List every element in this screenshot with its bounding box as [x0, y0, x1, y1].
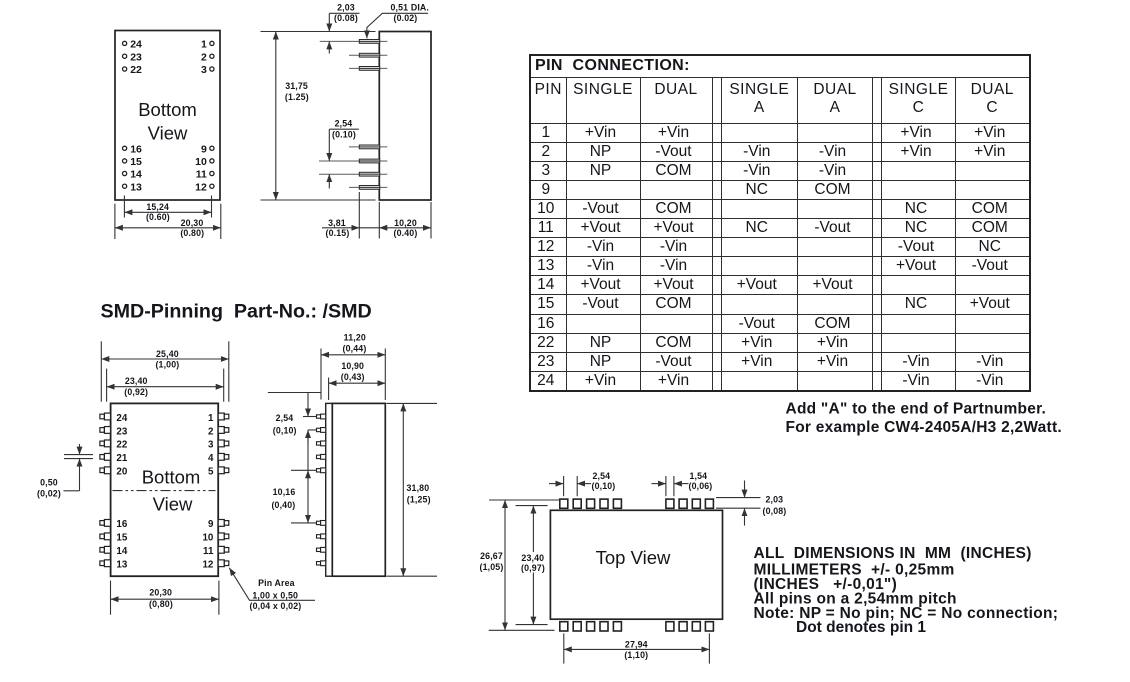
- svg-text:31,75: 31,75: [285, 81, 308, 91]
- svg-text:1,54: 1,54: [690, 471, 708, 481]
- leader 0,51 DIA. (0.02): [367, 2, 429, 38]
- svg-text:2: 2: [208, 426, 214, 437]
- smd pin 5: [208, 467, 229, 478]
- pin 23: [123, 51, 143, 63]
- svg-text:0,50: 0,50: [40, 477, 58, 487]
- svg-text:23,40: 23,40: [521, 553, 544, 563]
- dim 2,54 (0.10) mid: [329, 118, 359, 188]
- svg-text:2,03: 2,03: [337, 2, 355, 12]
- SMD centerline: [113, 490, 216, 492]
- smd pin 20: [100, 467, 128, 478]
- svg-text:2: 2: [201, 51, 207, 63]
- dim 0,50 (0,02): [37, 444, 93, 498]
- svg-text:(0,02): (0,02): [37, 488, 61, 498]
- svg-text:(0,92): (0,92): [124, 387, 148, 397]
- svg-text:(1,10): (1,10): [624, 650, 648, 660]
- SMD side view body: [332, 403, 385, 576]
- svg-text:(1,25): (1,25): [407, 495, 431, 505]
- smd pin 24: [100, 413, 128, 424]
- smd side pin 23: [317, 428, 326, 433]
- side pin 6: [319, 172, 387, 176]
- dim 20,30 (0,80) smd: [111, 581, 219, 615]
- smd pin 11: [203, 546, 229, 557]
- svg-text:ALL DIMENSIONS IN MM (INCHE: ALL DIMENSIONS IN MM (INCHES): [754, 545, 1032, 562]
- smd pin 14: [100, 546, 128, 557]
- svg-text:(0.15): (0.15): [326, 228, 350, 238]
- svg-text:Add "A" to the end of Partnumb: Add "A" to the end of Partnumber.: [786, 401, 1047, 418]
- svg-text:23,40: 23,40: [125, 376, 148, 386]
- smd pin 15: [100, 533, 128, 544]
- svg-text:13: 13: [116, 560, 127, 571]
- svg-text:(0,97): (0,97): [521, 563, 545, 573]
- smd side pin 15: [317, 534, 326, 539]
- svg-text:24: 24: [116, 413, 127, 424]
- dim 3,81 (0.15): [322, 192, 379, 239]
- svg-text:(0,04 x 0,02): (0,04 x 0,02): [250, 601, 302, 611]
- svg-text:1,00 x 0,50: 1,00 x 0,50: [252, 591, 298, 601]
- svg-text:20,30: 20,30: [149, 588, 172, 598]
- svg-text:23: 23: [130, 51, 142, 63]
- svg-text:11: 11: [203, 546, 214, 557]
- dim 31,80 (1,25): [387, 403, 438, 576]
- svg-text:(0.60): (0.60): [146, 212, 170, 222]
- svg-text:24: 24: [130, 39, 142, 51]
- svg-text:2,54: 2,54: [593, 471, 611, 481]
- dim 15,24 (0.60): [124, 196, 211, 222]
- pin 11: [196, 169, 214, 181]
- side pin 4: [349, 145, 387, 149]
- top view outline: [550, 510, 722, 619]
- dim 2,03 (0.08): [329, 2, 359, 53]
- svg-text:2,54: 2,54: [335, 118, 353, 128]
- smd pin 21: [100, 453, 128, 464]
- svg-text:(0.10): (0.10): [332, 130, 356, 140]
- pin connection table: [529, 54, 1031, 392]
- svg-text:1: 1: [208, 413, 214, 424]
- svg-text:14: 14: [130, 169, 142, 181]
- top view bottom pads left group: [560, 622, 622, 631]
- svg-text:27,94: 27,94: [625, 640, 648, 650]
- svg-text:Bottom: Bottom: [138, 99, 197, 120]
- pin 10: [195, 156, 214, 168]
- svg-text:(0.40): (0.40): [394, 228, 418, 238]
- pin 2: [201, 51, 214, 63]
- dim 2,54 (0,10) top view: [549, 471, 615, 496]
- dim 23,40 (0,97) top view: [516, 506, 548, 625]
- pin 16: [123, 144, 143, 156]
- note Add A: [786, 401, 1062, 437]
- top view bottom pads right group: [666, 622, 714, 631]
- svg-text:2,54: 2,54: [276, 413, 294, 423]
- dim 10,16 (0,40): [271, 430, 316, 523]
- svg-text:(0,06): (0,06): [689, 481, 713, 491]
- pin 22: [123, 64, 143, 76]
- side pin 2: [349, 53, 387, 57]
- smd pin 16: [100, 519, 128, 530]
- svg-text:Dot denotes pin 1: Dot denotes pin 1: [796, 619, 926, 636]
- smd side pin 21: [317, 454, 326, 459]
- svg-text:(1,00): (1,00): [155, 360, 179, 370]
- dim 2,54 (0,10) smd: [268, 393, 322, 446]
- svg-text:(0,43): (0,43): [341, 372, 365, 382]
- svg-text:10,16: 10,16: [273, 487, 296, 497]
- through-hole side view body: [379, 32, 431, 201]
- svg-text:3: 3: [201, 64, 207, 76]
- svg-text:(0,80): (0,80): [149, 599, 173, 609]
- svg-text:1: 1: [201, 39, 207, 51]
- label Bottom View SMD: [142, 467, 201, 515]
- through-hole bottom view outline: [115, 31, 220, 201]
- svg-text:(1,05): (1,05): [480, 562, 504, 572]
- dim 25,40 (1,00): [101, 341, 229, 401]
- svg-text:22: 22: [116, 440, 127, 451]
- smd side pin 22: [317, 441, 326, 446]
- leader Pin Area: [229, 568, 315, 611]
- smd pin 9: [208, 519, 229, 530]
- svg-text:Bottom: Bottom: [142, 467, 201, 488]
- svg-text:15,24: 15,24: [146, 202, 169, 212]
- smd side pin 20: [317, 468, 326, 473]
- svg-text:For example CW4-2405A/H3 2,2Wa: For example CW4-2405A/H3 2,2Watt.: [786, 419, 1062, 436]
- svg-text:Pin Area: Pin Area: [258, 578, 295, 588]
- svg-text:5: 5: [208, 467, 214, 478]
- smd pin 23: [100, 426, 128, 437]
- dim 10,90 (0,43): [329, 361, 386, 400]
- svg-text:(0,44): (0,44): [343, 343, 367, 353]
- svg-text:16: 16: [130, 144, 142, 156]
- dim 10,20 (0.40): [379, 202, 431, 239]
- smd side pin 14: [317, 547, 326, 552]
- svg-text:16: 16: [116, 519, 127, 530]
- svg-text:(0,40): (0,40): [271, 500, 295, 510]
- pin 9: [201, 144, 214, 156]
- label Top View: [596, 547, 671, 568]
- svg-text:(0,10): (0,10): [273, 425, 297, 435]
- pin 15: [123, 156, 143, 168]
- smd pin 3: [208, 440, 229, 451]
- svg-text:20: 20: [116, 467, 127, 478]
- svg-text:25,40: 25,40: [156, 349, 179, 359]
- dim 20,30 (0.80): [115, 204, 221, 239]
- smd pin 2: [208, 426, 229, 437]
- side pin 1: [320, 40, 388, 44]
- dim 31,75 (1.25): [261, 32, 376, 201]
- svg-text:10: 10: [195, 156, 207, 168]
- svg-text:11,20: 11,20: [344, 332, 366, 342]
- side pin 7: [349, 186, 387, 190]
- svg-text:10,20: 10,20: [394, 218, 417, 228]
- top view top pads left group: [560, 499, 622, 508]
- smd pin 10: [202, 533, 228, 544]
- note all dimensions: [754, 545, 1059, 636]
- pin 12: [195, 181, 214, 193]
- svg-text:9: 9: [201, 144, 207, 156]
- svg-text:(0.08): (0.08): [334, 13, 358, 23]
- pin 3: [201, 64, 214, 76]
- pin 13: [123, 181, 143, 193]
- pin 24: [123, 39, 143, 51]
- svg-text:2,03: 2,03: [766, 495, 784, 505]
- smd pin 22: [100, 440, 128, 451]
- svg-text:Top View: Top View: [596, 547, 671, 568]
- svg-text:View: View: [148, 123, 188, 144]
- dim 1,54 (0,06): [652, 471, 713, 496]
- svg-text:3: 3: [208, 440, 214, 451]
- SMD bottom view outline: [111, 403, 219, 576]
- dim 26,67 (1,05): [480, 500, 560, 630]
- svg-text:15: 15: [116, 533, 127, 544]
- smd side pin 16: [317, 521, 326, 526]
- dim 2,03 (0,08) top view: [716, 481, 786, 526]
- smd side pin 24: [317, 414, 326, 419]
- smd pin 1: [208, 413, 229, 424]
- svg-text:11: 11: [196, 169, 207, 181]
- dim 23,40 (0,92): [107, 369, 224, 402]
- svg-text:22: 22: [130, 64, 142, 76]
- side pin 3: [349, 67, 387, 71]
- svg-text:(1.25): (1.25): [285, 92, 309, 102]
- heading SMD-Pinning: [101, 301, 372, 323]
- svg-text:20,30: 20,30: [181, 218, 204, 228]
- svg-text:10: 10: [202, 533, 213, 544]
- svg-text:31,80: 31,80: [407, 483, 430, 493]
- svg-text:(0,08): (0,08): [763, 506, 787, 516]
- svg-text:0,51 DIA.: 0,51 DIA.: [391, 2, 430, 12]
- smd pin 4: [208, 453, 229, 464]
- smd pin 13: [100, 560, 128, 571]
- label Bottom View: [138, 99, 197, 144]
- svg-text:12: 12: [202, 560, 213, 571]
- svg-text:(0.80): (0.80): [180, 228, 204, 238]
- svg-text:12: 12: [195, 181, 207, 193]
- svg-text:4: 4: [208, 453, 214, 464]
- smd side pin 13: [317, 561, 326, 566]
- side pin 5: [319, 159, 387, 163]
- svg-text:3,81: 3,81: [328, 218, 346, 228]
- svg-text:(0,10): (0,10): [592, 481, 616, 491]
- svg-text:View: View: [153, 493, 193, 514]
- svg-text:26,67: 26,67: [480, 551, 503, 561]
- dim 27,94 (1,10): [564, 633, 710, 663]
- pin 1: [201, 39, 214, 51]
- svg-text:14: 14: [116, 546, 127, 557]
- svg-text:23: 23: [116, 426, 127, 437]
- pin 14: [123, 169, 143, 181]
- svg-text:(0.02): (0.02): [394, 13, 418, 23]
- smd pin 12: [202, 560, 228, 571]
- svg-text:15: 15: [130, 156, 142, 168]
- svg-text:9: 9: [208, 519, 214, 530]
- SMD side view pad strip: [326, 403, 333, 576]
- svg-text:13: 13: [130, 181, 142, 193]
- svg-text:21: 21: [116, 453, 127, 464]
- top view top pads right group: [666, 499, 714, 508]
- svg-text:SMD-Pinning Part-No.: /SMD: SMD-Pinning Part-No.: /SMD: [101, 301, 372, 323]
- dim 11,20 (0,44): [321, 332, 385, 400]
- svg-text:10,90: 10,90: [341, 361, 364, 371]
